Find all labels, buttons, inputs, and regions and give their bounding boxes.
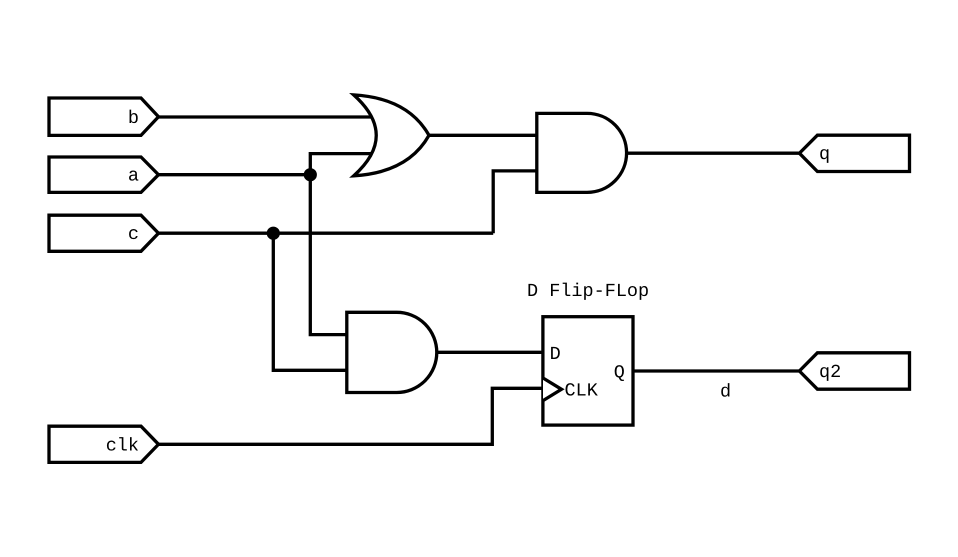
junction dot on net c xyxy=(267,227,280,240)
wire clk to flip-flop CLK xyxy=(159,388,545,444)
wire junction A up-jog to OR gate input 2 xyxy=(310,154,378,175)
svg-text:d: d xyxy=(720,382,731,403)
svg-text:Q: Q xyxy=(614,362,625,383)
wire b to OR gate input 1 xyxy=(159,115,381,118)
d-flip-flop U4 clock triangle xyxy=(543,378,562,401)
wire AND1 output to port q xyxy=(627,152,800,155)
wire c to vertical riser xyxy=(159,232,494,235)
svg-text:CLK: CLK xyxy=(565,381,599,402)
input port clk xyxy=(49,426,159,462)
svg-text:D Flip-FLop: D Flip-FLop xyxy=(527,281,649,302)
svg-text:clk: clk xyxy=(106,435,139,456)
wire AND2 output to flip-flop D xyxy=(437,351,544,354)
wire junction A down to AND2 input 1 xyxy=(310,175,349,335)
svg-text:q: q xyxy=(819,144,830,165)
svg-text:b: b xyxy=(128,108,139,129)
wire junction C down to AND2 input 2 xyxy=(273,233,349,370)
wire OR output to AND1 input 1 xyxy=(428,134,539,137)
junction dot on net a xyxy=(304,168,317,181)
wire a to junction xyxy=(159,173,311,176)
svg-text:q2: q2 xyxy=(819,362,841,383)
svg-text:D: D xyxy=(550,344,561,365)
and-gate U3 (bottom) xyxy=(347,312,437,392)
wire c riser up to AND1 input 2 xyxy=(493,171,539,233)
svg-text:c: c xyxy=(128,224,139,245)
input port b xyxy=(49,98,159,135)
or-gate U1 xyxy=(354,95,429,176)
output port q xyxy=(799,135,909,171)
wire flip-flop Q to port q2 (net d) xyxy=(633,369,799,372)
d-flip-flop U4 body xyxy=(543,317,633,425)
input port a xyxy=(49,157,159,192)
input port c xyxy=(49,215,159,251)
output port q2 xyxy=(799,353,909,389)
and-gate U2 (top) xyxy=(537,113,627,192)
svg-text:a: a xyxy=(128,166,139,187)
